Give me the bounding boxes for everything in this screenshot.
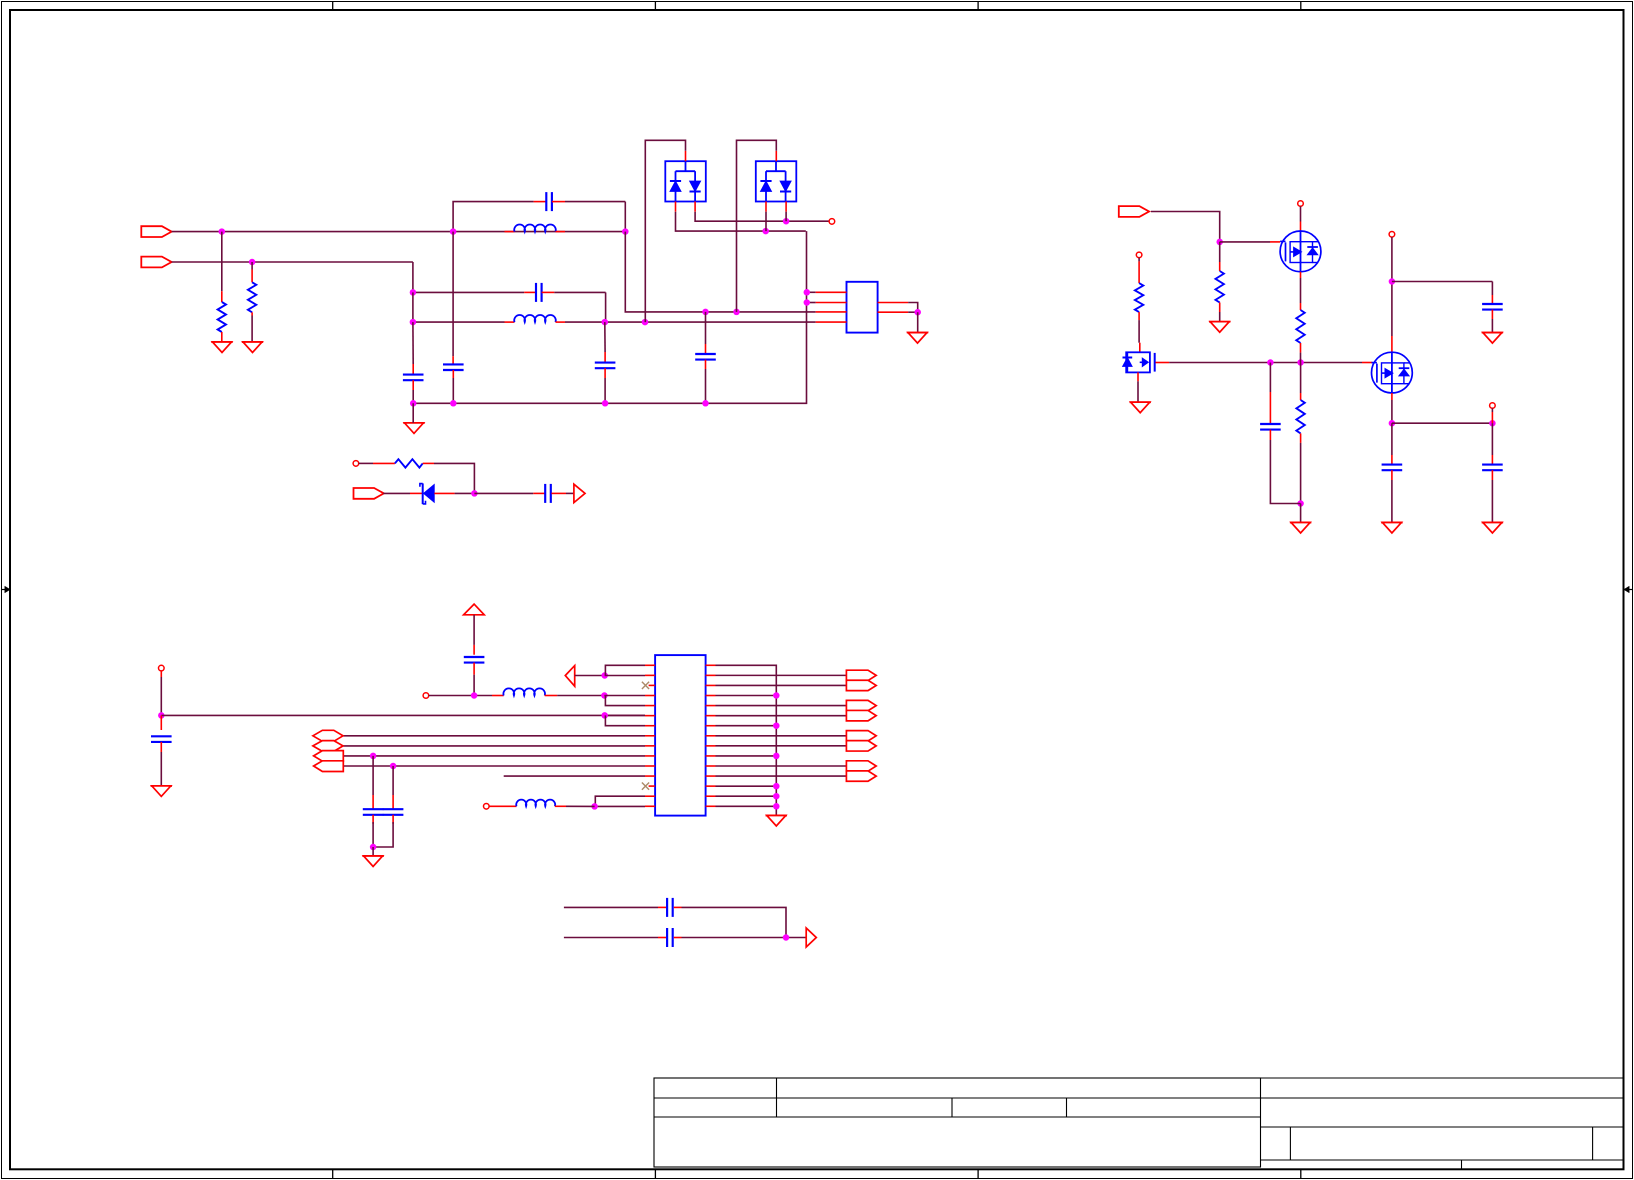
wire gate M1 <box>1220 241 1280 243</box>
node JB0 <box>773 692 780 699</box>
wire U2 pin2 <box>605 674 655 676</box>
node JB3 <box>773 783 780 790</box>
node J29 <box>601 692 608 699</box>
node J30 <box>601 672 608 679</box>
capacitor C16 <box>658 928 682 947</box>
wire U2 rpin13 <box>706 785 777 787</box>
wire bus drop <box>412 403 414 423</box>
wire net VIN- <box>172 262 413 292</box>
capacitor C2 <box>524 283 554 302</box>
ground Q2 <box>1130 402 1151 413</box>
capacitor C13 <box>363 756 384 847</box>
node J24 <box>1389 278 1396 285</box>
wire U2 pin11 <box>343 765 655 767</box>
ic U1 <box>847 282 878 333</box>
wire cap line1 <box>564 907 786 937</box>
port P3 <box>1119 206 1149 217</box>
ground C11 <box>151 786 172 797</box>
terminal T3 <box>1298 201 1304 207</box>
capacitor C10 <box>1482 423 1503 522</box>
wire net VIN+ <box>172 231 626 233</box>
wire D1 top <box>645 140 685 322</box>
wire U2 pin1 <box>605 665 655 675</box>
tvs D2 <box>756 161 797 201</box>
terminal T4 <box>1389 232 1395 238</box>
wire U1 pin2 <box>807 302 847 304</box>
wire L3 to pin <box>557 695 604 697</box>
wire node to C17 <box>474 492 544 494</box>
wire U2 rpin11 <box>706 765 847 767</box>
node J6 <box>410 319 417 326</box>
capacitor C7 <box>1260 363 1301 504</box>
capacitor C9 <box>1382 423 1403 522</box>
wire U2 rpin12 <box>706 775 847 777</box>
title block left table <box>654 1078 1261 1167</box>
wire D3 to node <box>434 492 474 494</box>
mosfet M2 <box>1372 352 1413 393</box>
resistor R7 <box>1296 363 1304 504</box>
port Q3a <box>846 731 876 741</box>
port Q4a <box>846 761 876 771</box>
node J37 <box>471 490 478 497</box>
port H3 <box>314 751 344 762</box>
border zone ticks bottom <box>333 1169 1301 1179</box>
ground R1 <box>211 342 232 353</box>
port Q1a <box>846 670 876 680</box>
ground M1 chain <box>1290 523 1311 534</box>
nc U2 pin3 <box>642 682 655 689</box>
node J31 <box>601 712 608 719</box>
ground bus <box>403 423 424 434</box>
wire R5 to Q2 <box>1139 343 1141 353</box>
node J35 <box>370 844 377 851</box>
transistor Q2 <box>1123 352 1155 372</box>
node JB2 <box>773 753 780 760</box>
capacitor C15 <box>658 898 682 917</box>
node J16 <box>783 218 790 225</box>
wire U2 pin15 <box>595 805 656 807</box>
capacitor C5 <box>595 322 616 403</box>
wire net mid <box>161 714 645 716</box>
wire P6 to D3 <box>383 492 423 494</box>
wire C13 gnd <box>372 847 374 856</box>
inductor L2 <box>505 315 566 322</box>
resistor R2 <box>248 262 256 342</box>
border center arrow left <box>1 586 10 593</box>
wire net 2 <box>413 292 816 322</box>
wire U1 pin1 <box>807 291 847 293</box>
capacitor C6 <box>695 312 716 403</box>
terminal T9 <box>353 461 359 467</box>
terminal T7 <box>423 693 429 699</box>
capacitor C3 <box>443 232 464 404</box>
node J4 <box>622 228 629 235</box>
node JB1 <box>773 722 780 729</box>
capacitor C12 <box>464 657 485 696</box>
wire U2 pin4 <box>604 695 655 697</box>
resistor R6 <box>1296 272 1304 363</box>
border zone ticks top <box>333 1 1301 10</box>
ground U2 bus <box>766 816 787 827</box>
border center arrow right <box>1624 586 1633 593</box>
wire R3 to node <box>434 463 474 493</box>
mosfet M1 <box>1280 231 1321 272</box>
port arrow P4 <box>565 666 604 687</box>
wire U2 pin14 <box>595 796 655 806</box>
ground U1 <box>907 333 928 344</box>
wire M2 drain <box>1391 237 1393 352</box>
wire drain to C8 <box>1392 282 1493 296</box>
port Q4b <box>846 771 876 781</box>
node J17 <box>804 289 811 296</box>
wire U2 rpin7 <box>706 725 777 727</box>
node J32 <box>591 803 598 810</box>
wire cap line2 <box>564 937 806 939</box>
wire U1 gnd drop <box>917 312 919 332</box>
port Q2a <box>846 700 876 710</box>
wire U1 pin3 <box>816 311 847 313</box>
terminal T1 <box>829 219 835 225</box>
wire U2 rpin15 <box>706 805 777 807</box>
node J15 <box>762 228 769 235</box>
ground C9 <box>1381 523 1402 534</box>
ground C8 <box>1482 333 1503 344</box>
node J13 <box>602 400 609 407</box>
port H1 <box>313 730 343 741</box>
node J34 <box>390 763 397 770</box>
port H2 <box>313 741 343 752</box>
wire M1 drain <box>1300 206 1302 231</box>
node J36 <box>783 934 790 941</box>
node J18 <box>804 299 811 306</box>
wire U2 pin9 <box>343 745 655 747</box>
ground C13 <box>362 856 383 867</box>
wire U2 rpin4 <box>706 695 777 697</box>
wire D2 right pin <box>785 202 787 222</box>
capacitor C1 <box>534 192 565 211</box>
terminal T5 <box>1490 403 1496 409</box>
node J9 <box>702 309 709 316</box>
inductor L3 <box>492 688 557 695</box>
wire U2 pin12 <box>504 775 655 777</box>
terminal T2 <box>1136 252 1142 258</box>
ground R2 <box>242 342 263 353</box>
port P1 <box>141 226 171 237</box>
wire U2 rpin1 <box>706 665 777 675</box>
wire U1 right1 <box>878 303 918 313</box>
node J27 <box>158 712 165 719</box>
wire U2 rpin8 <box>706 735 847 737</box>
diode D3 <box>420 483 434 504</box>
wire Q2 source <box>1137 372 1139 402</box>
capacitor C8 <box>1482 295 1503 333</box>
terminal T6 <box>159 665 165 671</box>
resistor R3 <box>359 459 434 467</box>
tvs D1 <box>665 161 706 201</box>
ground R4 <box>1209 322 1230 333</box>
port Q1b <box>846 680 876 690</box>
port arrow P7 <box>574 484 585 502</box>
capacitor C11 <box>151 715 172 786</box>
ground C10 <box>1482 523 1503 534</box>
port Q3b <box>846 741 876 751</box>
node J22 <box>1297 359 1304 366</box>
node J5 <box>410 289 417 296</box>
wire U2 pin10 <box>343 755 655 757</box>
wire U2 pin6 <box>605 714 655 716</box>
wire U2 rpin6 <box>706 715 847 717</box>
terminal T8 <box>484 804 490 810</box>
wire D1 right pin <box>695 202 829 222</box>
wire cap branch top <box>453 202 625 232</box>
wire D1 left pin <box>676 202 806 232</box>
wire source link <box>1392 422 1493 424</box>
port arrow P5 <box>806 928 816 947</box>
resistor R1 <box>218 232 226 342</box>
wire ground bus <box>413 231 806 403</box>
inductor L4 <box>489 800 594 807</box>
node J28 <box>471 692 478 699</box>
node J8 <box>642 319 649 326</box>
node J11 <box>410 400 417 407</box>
port Q2b <box>846 710 876 720</box>
wire U2 rpin3 <box>706 684 847 686</box>
node J12 <box>450 400 457 407</box>
wire U2 pin5 <box>605 696 655 706</box>
wire U2 pin8 <box>343 735 655 737</box>
node J10 <box>733 309 740 316</box>
wire net 1 <box>625 232 815 312</box>
node J26 <box>1489 420 1496 427</box>
node J25 <box>1389 420 1396 427</box>
capacitor C14 <box>373 766 403 847</box>
wire U2 rpin2 <box>706 674 847 676</box>
resistor R4 <box>1216 242 1224 322</box>
node JB4 <box>773 793 780 800</box>
wire D2 left pin <box>765 202 767 232</box>
nc U2 pin13 <box>642 783 655 790</box>
node J14 <box>702 400 709 407</box>
node J33 <box>370 753 377 760</box>
wire M2 source <box>1391 393 1393 423</box>
wire U2 rpin5 <box>706 705 847 707</box>
node J23 <box>1297 500 1304 507</box>
wire Q2 gate <box>1156 362 1373 364</box>
wire net L3 <box>429 695 492 697</box>
node J19 <box>914 309 921 316</box>
wire T6 drop <box>160 671 162 716</box>
wire U2 pin7 <box>605 715 655 725</box>
wire U1 right2 <box>878 311 918 313</box>
capacitor C4 <box>403 322 424 403</box>
node J21 <box>1267 359 1274 366</box>
title block right table <box>1261 1078 1624 1169</box>
node J3 <box>450 228 457 235</box>
wire cap branch 2 <box>413 292 606 322</box>
port P6 <box>354 488 384 499</box>
inductor L1 <box>505 224 566 231</box>
node J20 <box>1216 239 1223 246</box>
node J1 <box>219 228 226 235</box>
wire right bus <box>775 675 777 815</box>
wire U2 rpin14 <box>706 795 777 797</box>
node J2 <box>249 259 256 266</box>
node J7 <box>602 319 609 326</box>
port H4 <box>314 761 344 772</box>
wire U1 pin4 <box>816 321 847 323</box>
wire D2 top <box>737 140 777 312</box>
power arrow VCC <box>464 604 485 655</box>
wire P3 to gate <box>1151 212 1220 242</box>
capacitor C17 <box>545 484 574 503</box>
resistor R5 <box>1135 258 1143 343</box>
wire U2 rpin10 <box>706 755 777 757</box>
node JB5 <box>773 803 780 810</box>
wire M1 gnd <box>1300 504 1302 523</box>
ic U2 <box>655 655 706 816</box>
wire T5 drop <box>1491 408 1493 423</box>
port P2 <box>141 257 171 268</box>
wire U2 rpin9 <box>706 745 847 747</box>
